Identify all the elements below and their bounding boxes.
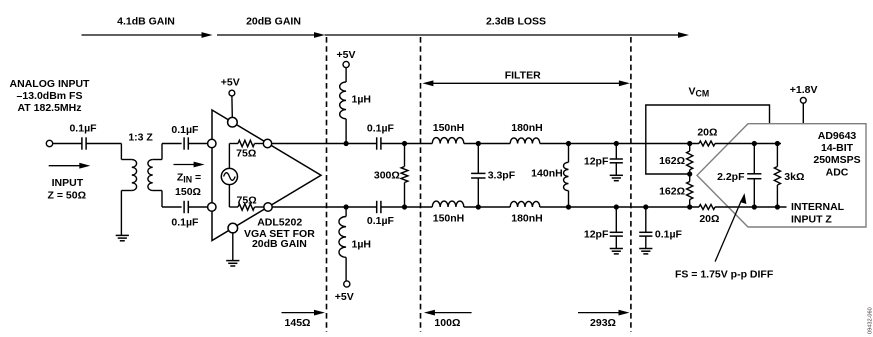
svg-text:INPUT: INPUT [52, 177, 84, 189]
svg-text:140nH: 140nH [531, 168, 563, 180]
svg-text:0.1µF: 0.1µF [367, 123, 395, 135]
svg-text:INPUT Z: INPUT Z [791, 214, 832, 226]
svg-text:AD9643: AD9643 [818, 130, 857, 142]
svg-text:180nH: 180nH [511, 213, 543, 225]
svg-text:150nH: 150nH [433, 122, 465, 134]
svg-text:ANALOG INPUT: ANALOG INPUT [10, 78, 91, 90]
svg-text:0.1µF: 0.1µF [171, 217, 199, 229]
svg-text:1µH: 1µH [352, 94, 371, 106]
svg-text:20Ω: 20Ω [699, 213, 719, 225]
svg-text:–13.0dBm FS: –13.0dBm FS [17, 90, 83, 102]
svg-text:1µH: 1µH [352, 238, 371, 250]
svg-text:4.1dB GAIN: 4.1dB GAIN [117, 16, 175, 28]
svg-text:Z = 50Ω: Z = 50Ω [48, 190, 86, 202]
svg-text:0.1µF: 0.1µF [69, 123, 97, 135]
svg-text:3.3pF: 3.3pF [488, 169, 516, 181]
svg-text:+5V: +5V [337, 49, 356, 61]
svg-text:145Ω: 145Ω [285, 317, 311, 329]
svg-text:09432-060: 09432-060 [867, 307, 873, 334]
svg-text:300Ω: 300Ω [374, 169, 400, 181]
svg-text:2.3dB LOSS: 2.3dB LOSS [486, 16, 546, 28]
svg-text:INTERNAL: INTERNAL [791, 201, 845, 213]
svg-text:293Ω: 293Ω [590, 317, 616, 329]
svg-text:2.2pF: 2.2pF [717, 171, 745, 183]
svg-text:162Ω: 162Ω [659, 155, 685, 167]
svg-text:FILTER: FILTER [505, 70, 541, 82]
svg-text:1:3 Z: 1:3 Z [128, 131, 153, 143]
svg-text:20dB GAIN: 20dB GAIN [246, 16, 301, 28]
svg-text:0.1µF: 0.1µF [367, 215, 395, 227]
svg-text:14-BIT: 14-BIT [821, 142, 854, 154]
svg-text:150Ω: 150Ω [175, 186, 201, 198]
svg-text:FS = 1.75V p-p DIFF: FS = 1.75V p-p DIFF [675, 269, 774, 281]
svg-text:AT 182.5MHz: AT 182.5MHz [18, 102, 82, 114]
svg-text:0.1µF: 0.1µF [171, 124, 199, 136]
svg-text:75Ω: 75Ω [237, 194, 257, 206]
svg-text:162Ω: 162Ω [659, 186, 685, 198]
svg-text:250MSPS: 250MSPS [813, 154, 860, 166]
svg-text:+5V: +5V [221, 77, 240, 89]
svg-text:20Ω: 20Ω [697, 126, 717, 138]
svg-text:ADC: ADC [826, 166, 849, 178]
svg-text:20dB GAIN: 20dB GAIN [252, 238, 307, 250]
svg-text:3kΩ: 3kΩ [784, 171, 804, 183]
svg-text:0.1µF: 0.1µF [655, 229, 683, 241]
svg-text:75Ω: 75Ω [236, 148, 256, 160]
svg-text:12pF: 12pF [584, 156, 609, 168]
svg-text:+1.8V: +1.8V [790, 84, 818, 96]
svg-text:+5V: +5V [335, 291, 354, 303]
svg-text:12pF: 12pF [584, 229, 609, 241]
svg-text:180nH: 180nH [511, 122, 543, 134]
svg-text:150nH: 150nH [433, 213, 465, 225]
svg-text:100Ω: 100Ω [434, 317, 460, 329]
svg-text:ADL5202: ADL5202 [257, 217, 302, 229]
